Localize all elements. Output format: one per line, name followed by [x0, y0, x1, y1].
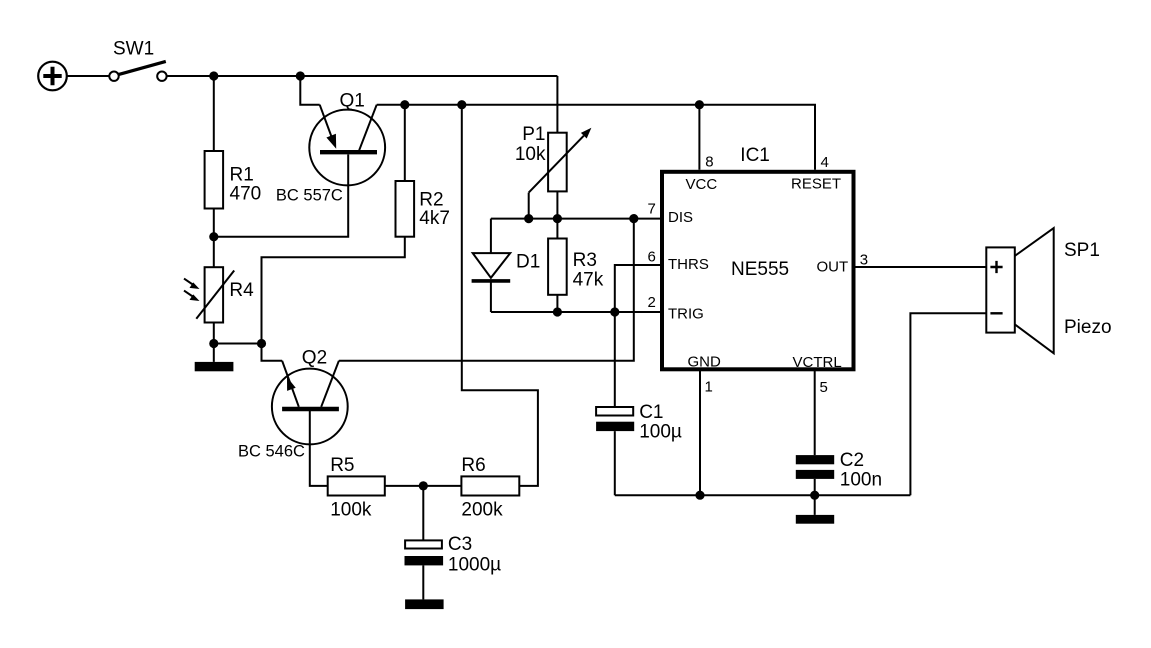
svg-text:100n: 100n	[840, 470, 882, 491]
svg-text:SW1: SW1	[113, 39, 154, 60]
svg-text:THRS: THRS	[668, 256, 709, 273]
wire THRS to C1	[615, 265, 661, 407]
wire OUT to speaker	[854, 266, 987, 268]
junction	[695, 100, 704, 109]
svg-text:100µ: 100µ	[639, 422, 682, 443]
wire node to Q2 emitter	[214, 343, 262, 345]
wire TRIG node	[491, 311, 661, 313]
battery positive terminal	[38, 62, 67, 91]
svg-text:C2: C2	[840, 450, 864, 471]
capacitor C3	[405, 486, 444, 600]
svg-text:8: 8	[705, 154, 713, 171]
wire P1 to R3	[556, 191, 558, 238]
svg-text:R5: R5	[330, 455, 354, 476]
wire R6 up to rail	[462, 105, 538, 486]
wire rail to R1	[213, 76, 215, 151]
transistor Q2	[262, 344, 348, 445]
svg-text:NE555: NE555	[731, 259, 789, 280]
svg-text:D1: D1	[516, 251, 540, 272]
wire second rail to IC pin 4	[377, 105, 815, 170]
LDR arrow	[184, 279, 200, 289]
svg-text:6: 6	[648, 249, 656, 266]
resistor R5	[328, 476, 385, 495]
potentiometer P1	[529, 128, 592, 219]
svg-text:1: 1	[705, 379, 713, 396]
svg-text:7: 7	[648, 200, 656, 217]
wire top supply rail	[167, 75, 558, 77]
resistor R3	[548, 239, 567, 295]
svg-text:1000µ: 1000µ	[448, 555, 501, 576]
svg-text:470: 470	[230, 184, 262, 205]
diode D1	[472, 219, 511, 312]
svg-text:C3: C3	[448, 534, 472, 555]
wire ground bus	[615, 494, 911, 496]
svg-text:C1: C1	[639, 402, 663, 423]
junction	[209, 71, 218, 80]
svg-text:4: 4	[821, 154, 829, 171]
svg-text:100k: 100k	[330, 500, 372, 521]
svg-text:IC1: IC1	[740, 145, 770, 166]
junction	[209, 232, 218, 241]
wire rail to Q1 emitter	[300, 76, 319, 105]
IC U1 NE555	[662, 172, 854, 369]
svg-text:RESET: RESET	[791, 176, 841, 193]
junction	[257, 339, 266, 348]
svg-text:SP1: SP1	[1064, 240, 1100, 261]
svg-text:47k: 47k	[573, 270, 604, 291]
junction	[209, 339, 218, 348]
wire DIS node	[491, 218, 661, 220]
junction	[457, 100, 466, 109]
junction	[629, 214, 638, 223]
svg-text:200k: 200k	[461, 500, 503, 521]
wire pin 1 GND	[699, 369, 701, 495]
svg-text:BC 557C: BC 557C	[276, 187, 343, 205]
transistor Q1	[309, 105, 385, 186]
junction	[553, 307, 562, 316]
svg-text:5: 5	[820, 379, 828, 396]
wire battery to switch	[67, 75, 110, 77]
ground	[796, 515, 834, 524]
svg-text:P1: P1	[522, 124, 545, 145]
resistor R1	[205, 151, 224, 209]
svg-text:R4: R4	[229, 280, 254, 301]
speaker SP1 piezo	[986, 228, 1053, 353]
svg-text:3: 3	[860, 252, 868, 269]
wire speaker minus return	[910, 313, 986, 495]
wire R3 to TRIG node	[556, 295, 558, 312]
wire pin 8	[698, 105, 700, 170]
svg-text:GND: GND	[688, 354, 722, 371]
svg-text:OUT: OUT	[817, 259, 849, 276]
junction	[419, 481, 428, 490]
junction	[610, 307, 619, 316]
junction	[810, 491, 819, 500]
wire R1 to node	[213, 209, 215, 237]
wire Q2 collector to DIS node	[339, 219, 634, 361]
wire Q2 base to R5	[310, 411, 328, 486]
ground	[195, 362, 234, 371]
svg-text:R6: R6	[461, 455, 485, 476]
wire R2 bottom to Q2 emitter node	[262, 237, 405, 344]
wire R5 to node	[385, 485, 424, 487]
ground	[405, 599, 444, 609]
junction	[695, 491, 704, 500]
svg-text:10k: 10k	[515, 144, 546, 165]
wire pin 5 VCTRL	[814, 369, 816, 455]
wire rail to P1	[556, 76, 558, 133]
wire R4 to ground	[213, 323, 215, 362]
resistor R2	[396, 181, 415, 237]
resistor R6	[461, 476, 519, 495]
resistor R4 LDR	[196, 237, 234, 323]
wire node to Q1 base	[214, 155, 348, 237]
svg-text:2: 2	[648, 294, 656, 311]
svg-text:DIS: DIS	[668, 209, 693, 226]
svg-text:R3: R3	[573, 250, 597, 271]
svg-text:Piezo: Piezo	[1064, 317, 1112, 338]
svg-text:Q1: Q1	[340, 91, 365, 112]
svg-text:VCTRL: VCTRL	[793, 354, 842, 371]
wire node to R6	[423, 485, 461, 487]
switch SW1	[109, 61, 166, 81]
svg-text:Q2: Q2	[302, 348, 327, 369]
junction	[296, 71, 305, 80]
capacitor C2	[796, 455, 834, 515]
svg-text:R1: R1	[230, 165, 254, 186]
junction	[400, 100, 409, 109]
svg-text:BC 546C: BC 546C	[238, 443, 305, 461]
LDR arrow	[184, 291, 200, 301]
svg-text:VCC: VCC	[686, 176, 718, 193]
junction	[553, 214, 562, 223]
svg-text:4k7: 4k7	[419, 208, 450, 229]
junction	[524, 214, 533, 223]
svg-text:TRIG: TRIG	[668, 306, 704, 323]
wire rail to R2	[404, 105, 406, 181]
capacitor C1	[596, 407, 634, 495]
